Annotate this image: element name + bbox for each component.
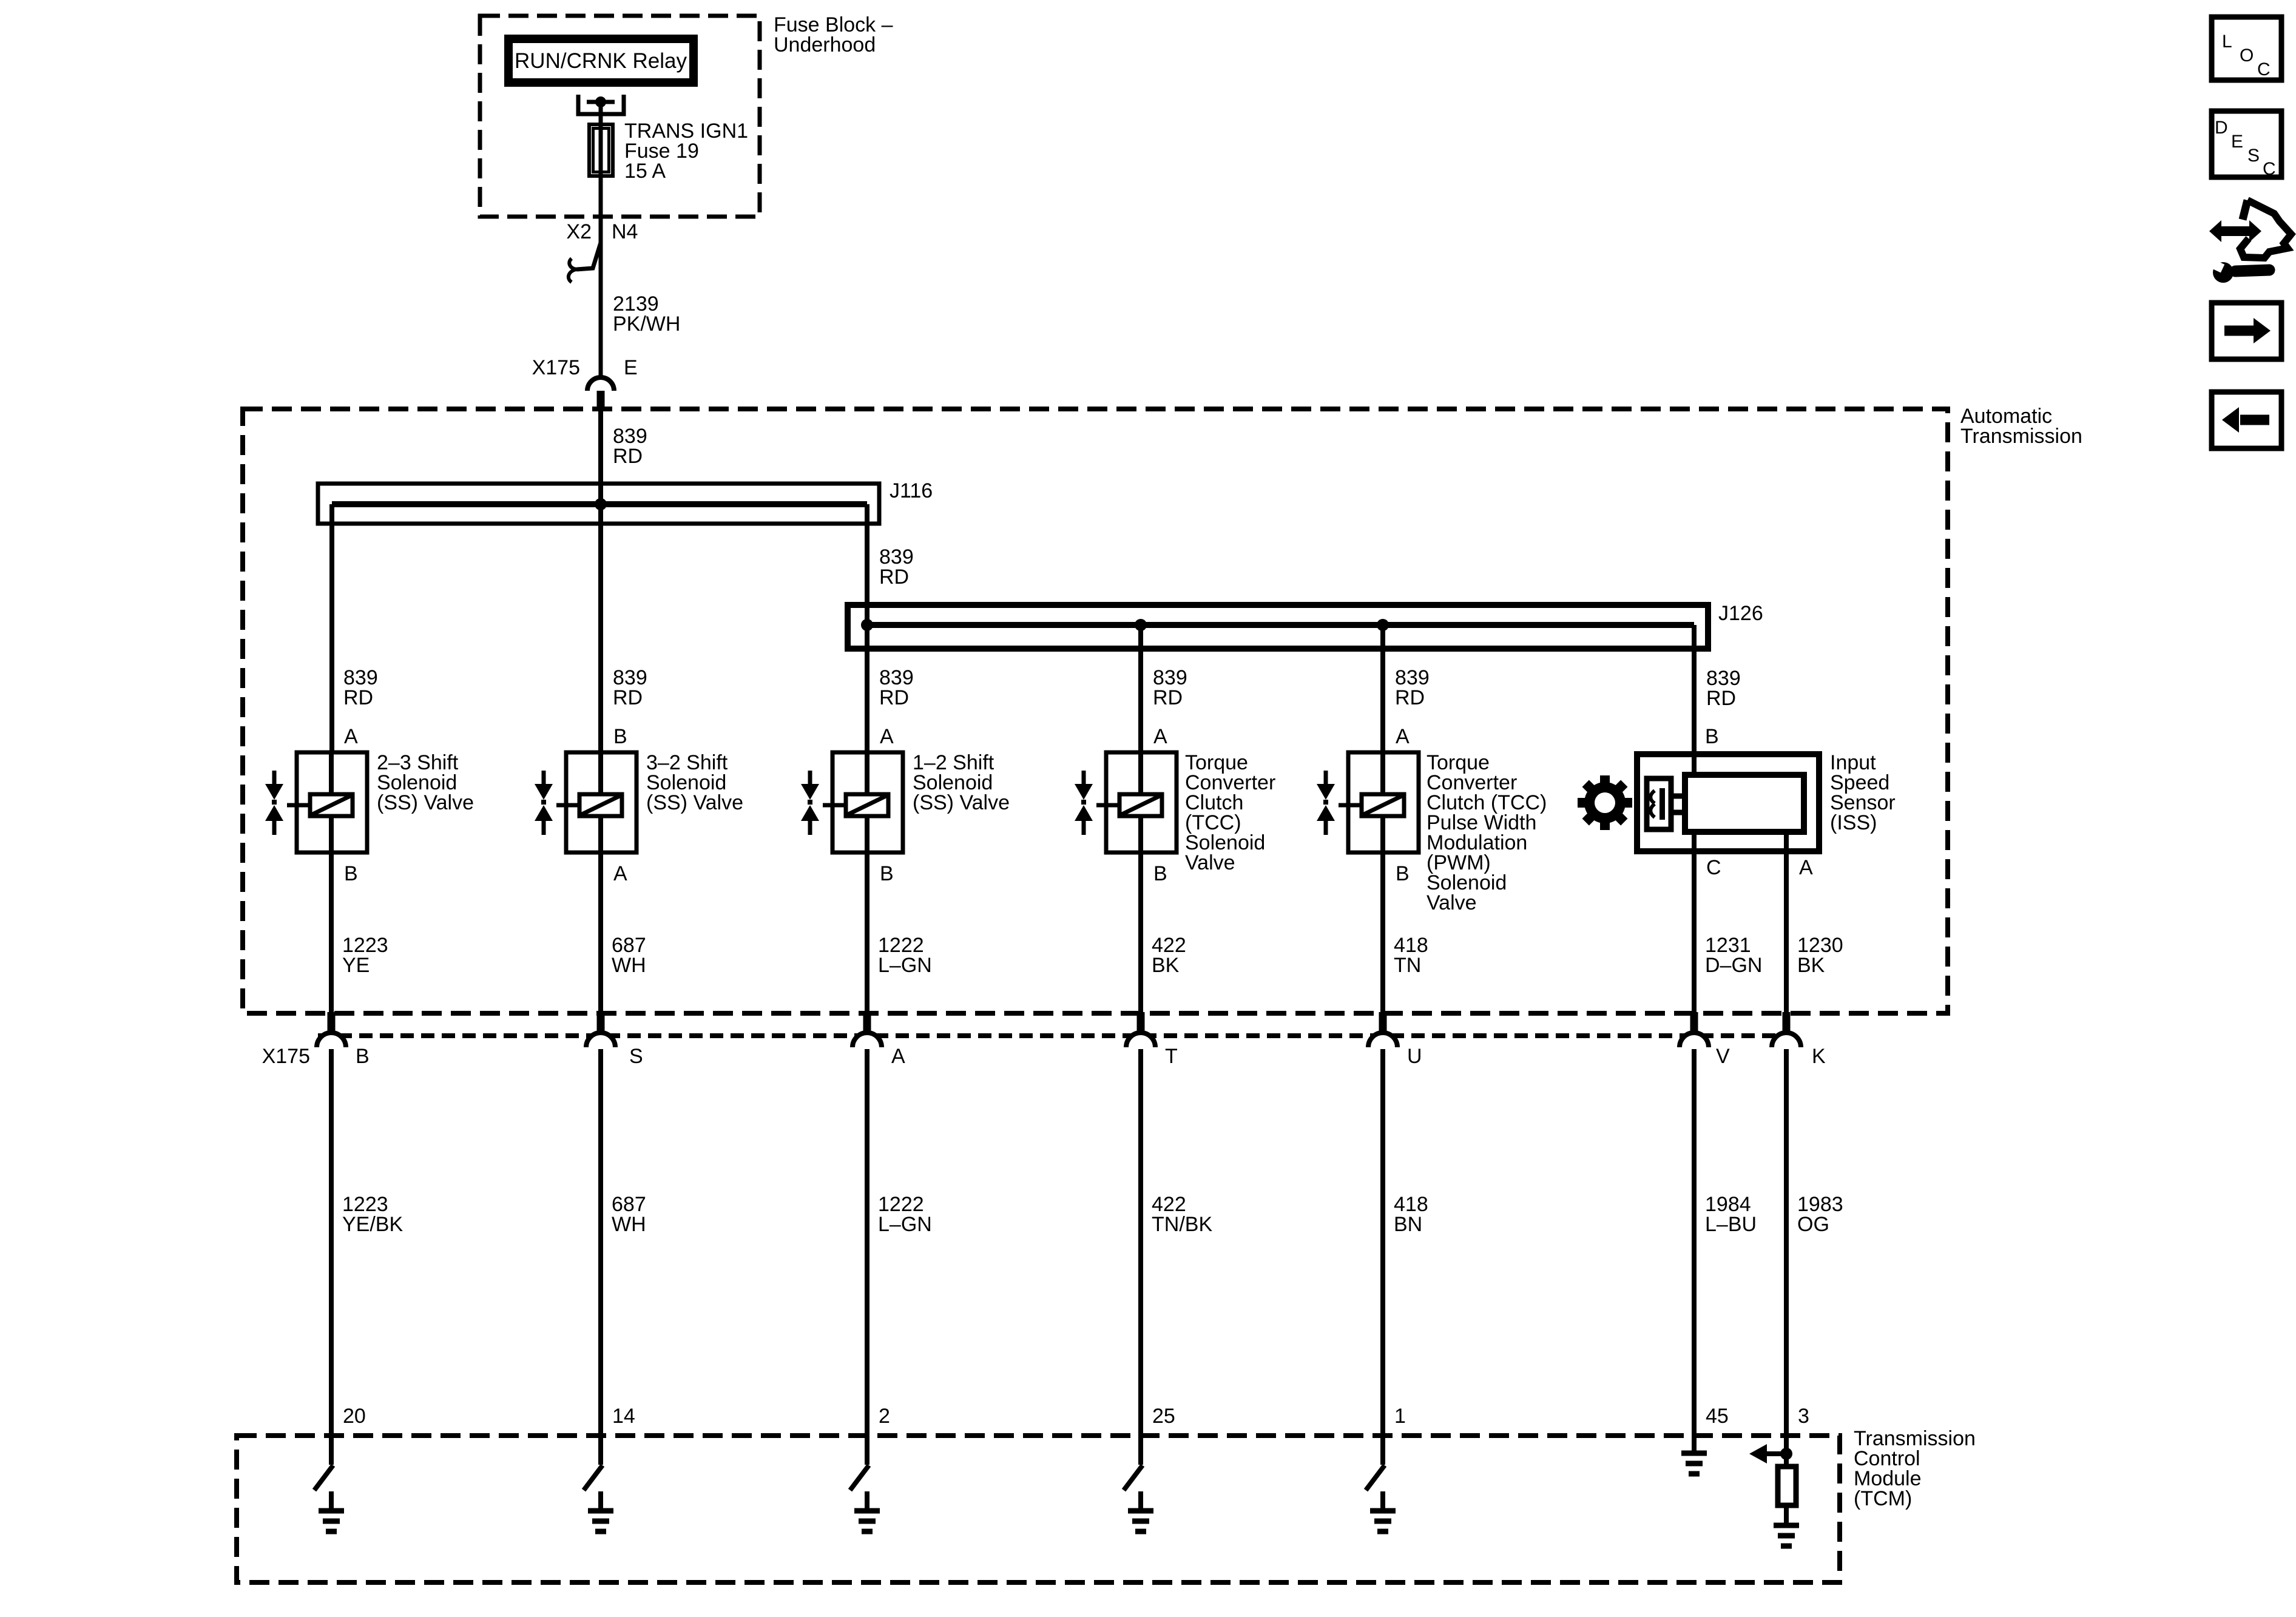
wire PWM-B down (1380, 852, 1385, 1012)
ground at TCM pin 45 (1681, 1453, 1707, 1474)
wire X175-T to TCM 25 (1138, 1049, 1143, 1436)
svg-text:L–GN: L–GN (878, 1213, 932, 1236)
switch at TCM pin 25 (1124, 1436, 1143, 1490)
junction dot TCM pin 3 (1780, 1448, 1792, 1460)
wire inside PWM (1380, 752, 1385, 852)
svg-text:B: B (613, 725, 627, 748)
svg-text:20: 20 (343, 1405, 366, 1428)
wire TCM pin 45 to ground (1692, 1436, 1697, 1454)
signal arrow at TCM pin 3 (1749, 1444, 1786, 1463)
svg-text:2: 2 (879, 1405, 890, 1428)
svg-text:(SS) Valve: (SS) Valve (646, 791, 743, 814)
ground at TCM pin 20 (319, 1491, 344, 1531)
svg-text:1: 1 (1394, 1405, 1406, 1428)
wire relay to fuse (599, 102, 603, 124)
wire ISS pin A (1784, 832, 1789, 1012)
wire 839 RD from X175-E to J116 (598, 410, 603, 504)
connector X175 dotted line (318, 1033, 1790, 1038)
svg-text:BK: BK (1152, 954, 1180, 977)
svg-text:WH: WH (612, 954, 646, 977)
wire with takeout clip below fuse block (569, 243, 601, 376)
svg-text:C: C (2257, 59, 2271, 79)
solenoid TCC PWM Solenoid Valve (1339, 752, 1419, 852)
solenoid S2 3-2 Shift Solenoid (SS) Valve (556, 752, 636, 852)
svg-text:(TCM): (TCM) (1854, 1487, 1912, 1510)
connector X175 pin V symbol (1680, 1012, 1709, 1047)
svg-text:B: B (356, 1045, 370, 1068)
switch at TCM pin 20 (314, 1436, 333, 1490)
junction dot J126 at PWM (1377, 619, 1389, 631)
wire J116 to solenoid S1 (329, 504, 334, 752)
svg-text:(SS) Valve: (SS) Valve (377, 791, 474, 814)
wire X175-B to TCM 20 (329, 1049, 334, 1436)
svg-text:B: B (1153, 862, 1167, 885)
solenoid S3 1-2 Shift Solenoid (SS) Valve (823, 752, 903, 852)
splice pack J126 (848, 605, 1708, 649)
check valve arrows S2 (535, 771, 553, 835)
svg-text:C: C (1706, 856, 1721, 879)
connector X175 pin U symbol (1368, 1012, 1397, 1047)
fuse block - underhood dashed box (480, 16, 760, 217)
wire ISS pin C (1692, 832, 1697, 1012)
svg-text:RD: RD (879, 565, 909, 589)
wire J116 through to solenoid S2 (598, 504, 603, 752)
svg-text:L–GN: L–GN (878, 954, 932, 977)
wire inside S1 (329, 752, 334, 852)
wire J126 to TCC solenoid (1138, 625, 1143, 752)
svg-text:WH: WH (612, 1213, 646, 1236)
svg-text:A: A (1153, 725, 1167, 748)
icon arrow right box (2212, 303, 2281, 359)
junction dot J126 at TCC (1135, 619, 1147, 631)
svg-text:D–GN: D–GN (1705, 954, 1762, 977)
connector X175 pin B symbol (317, 1012, 346, 1047)
svg-text:E: E (624, 356, 638, 379)
svg-text:PK/WH: PK/WH (613, 312, 680, 336)
svg-text:V: V (1716, 1045, 1730, 1068)
svg-text:YE/BK: YE/BK (342, 1213, 403, 1236)
svg-text:(SS) Valve: (SS) Valve (913, 791, 1010, 814)
svg-text:L–BU: L–BU (1705, 1213, 1757, 1236)
solenoid TCC Torque Converter Clutch Solenoid Valve (1096, 752, 1177, 852)
switch at TCM pin 14 (584, 1436, 603, 1490)
svg-text:A: A (891, 1045, 905, 1068)
ground at TCM pin 14 (588, 1491, 613, 1531)
svg-text:RD: RD (1395, 686, 1425, 709)
svg-text:Underhood: Underhood (774, 33, 876, 56)
wire through fuse (599, 124, 603, 243)
svg-text:TN: TN (1394, 954, 1421, 977)
svg-text:Valve: Valve (1427, 891, 1477, 914)
automatic transmission dashed box (243, 409, 1948, 1013)
wire J126 to ISS pin B (1692, 625, 1697, 777)
svg-text:TN/BK: TN/BK (1152, 1213, 1212, 1236)
wire X175-U to TCM 1 (1380, 1049, 1385, 1436)
switch at TCM pin 1 (1366, 1436, 1385, 1490)
svg-text:K: K (1812, 1045, 1826, 1068)
svg-text:S: S (629, 1045, 643, 1068)
svg-text:X175: X175 (532, 356, 580, 379)
svg-text:L: L (2222, 32, 2232, 52)
gear wheel symbol (1578, 775, 1632, 830)
svg-text:RD: RD (879, 686, 909, 709)
svg-text:J126: J126 (1718, 602, 1763, 625)
transmission control module TCM dashed box (237, 1436, 1840, 1582)
wire S2-A down (598, 852, 603, 1012)
wire TCC-B down (1138, 852, 1143, 1012)
svg-text:3: 3 (1798, 1405, 1809, 1428)
wire X175-A to TCM 2 (865, 1049, 869, 1436)
svg-text:15 A: 15 A (624, 160, 666, 183)
svg-text:OG: OG (1797, 1213, 1829, 1236)
switch at TCM pin 2 (850, 1436, 869, 1490)
ground at TCM pin 2 (854, 1491, 880, 1531)
svg-text:X2: X2 (566, 220, 592, 243)
input speed sensor ISS (1637, 754, 1819, 851)
svg-text:25: 25 (1152, 1405, 1175, 1428)
svg-text:RD: RD (1153, 686, 1183, 709)
connector X175 pin S symbol (586, 1012, 615, 1047)
svg-text:BN: BN (1394, 1213, 1422, 1236)
connector X175 pin A symbol (853, 1012, 882, 1047)
svg-text:B: B (344, 862, 358, 885)
check valve arrows S1 (265, 771, 283, 835)
junction dot relay terminal (595, 96, 606, 107)
svg-text:RD: RD (613, 686, 643, 709)
wire J126 to TCC PWM solenoid (1380, 625, 1385, 752)
wire S3-B down (865, 852, 869, 1012)
icon LOC box (2212, 17, 2281, 80)
svg-text:A: A (344, 725, 358, 748)
check valve arrows S3 (801, 771, 819, 835)
svg-text:U: U (1407, 1045, 1422, 1068)
wire TCM pin 3 internal (1784, 1436, 1789, 1467)
svg-text:S: S (2247, 146, 2260, 166)
svg-text:YE: YE (342, 954, 370, 977)
ground below resistor (1774, 1525, 1799, 1546)
connector X175 pin E symbol (587, 377, 614, 410)
check valve arrows TCC (1075, 771, 1093, 835)
svg-text:RUN/CRNK Relay: RUN/CRNK Relay (515, 49, 687, 73)
wire X175-K to TCM 3 (1784, 1049, 1789, 1436)
junction dot J126 left (861, 619, 873, 631)
wire X175-S to TCM 14 (598, 1049, 603, 1436)
resistor R in TCM (1778, 1467, 1796, 1505)
junction dot J116 at main feed (595, 498, 607, 510)
icon arrow left box (2212, 392, 2281, 448)
svg-text:D: D (2215, 118, 2228, 138)
svg-text:RD: RD (613, 445, 643, 468)
svg-text:A: A (1396, 725, 1410, 748)
wire resistor to ground (1784, 1505, 1789, 1527)
svg-text:A: A (880, 725, 894, 748)
svg-text:BK: BK (1797, 954, 1825, 977)
wire inside S2 (598, 752, 603, 852)
icon DESC box (2212, 111, 2281, 179)
svg-text:B: B (880, 862, 894, 885)
wire inside S3 (865, 752, 869, 852)
svg-text:Transmission: Transmission (1960, 425, 2082, 448)
svg-text:14: 14 (612, 1405, 635, 1428)
splice pack J116 (318, 484, 879, 524)
connector X175 pin T symbol (1126, 1012, 1155, 1047)
svg-text:B: B (1396, 862, 1410, 885)
svg-text:E: E (2231, 132, 2243, 152)
svg-text:O: O (2240, 46, 2254, 66)
relay K? RUN/CRNK Relay box (508, 39, 694, 83)
ground at TCM pin 1 (1370, 1491, 1396, 1531)
svg-text:45: 45 (1706, 1405, 1729, 1428)
fuse F19 TRANS IGN1 15A (589, 124, 613, 176)
svg-text:B: B (1705, 725, 1719, 748)
wire J126 to solenoid S3 (865, 625, 869, 752)
icon connector-view with arrow and wrench (2206, 200, 2291, 283)
connector X175 pin K symbol (1772, 1012, 1801, 1047)
svg-text:X175: X175 (262, 1045, 310, 1068)
wire 839 RD J116 to J126 (865, 504, 869, 625)
ground at TCM pin 25 (1128, 1491, 1153, 1531)
svg-text:N4: N4 (612, 220, 638, 243)
svg-text:A: A (613, 862, 627, 885)
wire inside TCC (1138, 752, 1143, 852)
wire X175-V to TCM 45 (1692, 1049, 1697, 1436)
wire S1-B down (329, 852, 334, 1012)
svg-text:C: C (2263, 159, 2276, 179)
check valve arrows PWM (1317, 771, 1335, 835)
relay terminal bracket (578, 95, 624, 114)
solenoid S1 2-3 Shift Solenoid (SS) Valve (287, 752, 367, 852)
svg-text:RD: RD (1706, 687, 1736, 710)
svg-text:T: T (1165, 1045, 1178, 1068)
svg-text:(ISS): (ISS) (1830, 811, 1877, 834)
svg-text:A: A (1799, 856, 1813, 879)
svg-text:RD: RD (343, 686, 373, 709)
svg-text:J116: J116 (890, 479, 933, 502)
svg-text:Valve: Valve (1185, 851, 1235, 874)
